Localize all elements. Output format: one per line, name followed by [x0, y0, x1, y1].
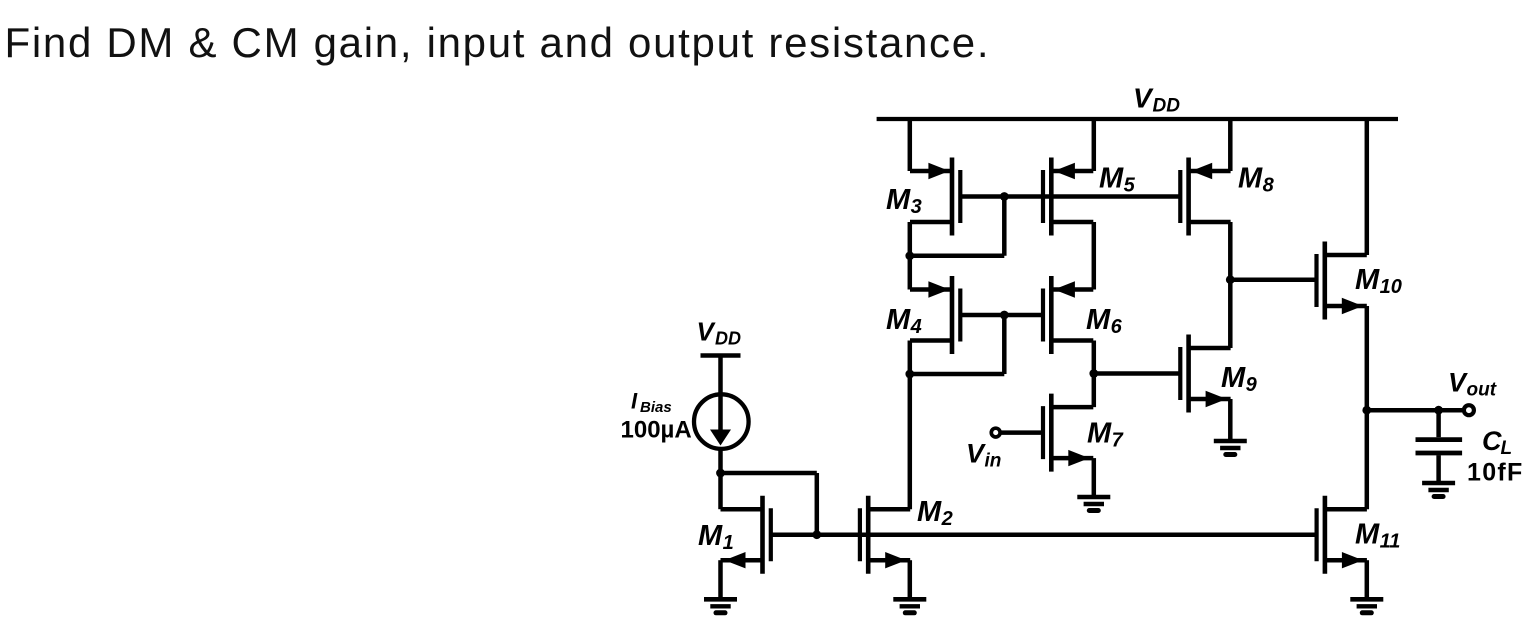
svg-text:Bias: Bias	[640, 399, 672, 416]
svg-text:Find DM & CM gain, input and o: Find DM & CM gain, input and output resi…	[5, 19, 991, 66]
label M6	[1086, 304, 1123, 338]
svg-text:5: 5	[1124, 175, 1136, 197]
svg-text:7: 7	[1112, 430, 1124, 452]
wire M4 drain node down to M2 drain	[908, 374, 913, 509]
label M8	[1238, 163, 1275, 197]
svg-text:4: 4	[910, 316, 922, 338]
wire M9 source to ground	[1228, 399, 1233, 441]
svg-text:6: 6	[1111, 316, 1123, 338]
svg-text:I: I	[631, 389, 638, 414]
transistor M9 (NMOS)	[1180, 335, 1230, 413]
ground (M1 source)	[704, 599, 737, 613]
wire gate line M1-M2-M11	[771, 532, 1317, 537]
svg-text:2: 2	[941, 508, 953, 530]
node M4 gate-drain junction	[1000, 311, 1009, 320]
label M10	[1355, 264, 1402, 298]
svg-text:L: L	[1501, 438, 1513, 459]
node M4 drain / M2 drain	[905, 370, 914, 379]
wire Vout node to M11 drain	[1365, 410, 1370, 509]
svg-text:10: 10	[1380, 276, 1402, 298]
svg-text:C: C	[1482, 426, 1502, 456]
wire M7 source to ground	[1092, 458, 1097, 497]
wire M3 drain node to M4 source	[908, 256, 913, 290]
label M5	[1099, 163, 1136, 197]
svg-text:3: 3	[911, 196, 922, 218]
label M11	[1355, 519, 1400, 553]
label M9	[1221, 362, 1258, 396]
transistor M8 (PMOS)	[1180, 158, 1230, 236]
wire gate line M3-M5-M8	[960, 194, 1180, 199]
svg-text:M: M	[886, 184, 911, 216]
ground (CL)	[1422, 483, 1455, 497]
wire VDD to M8 source	[1228, 119, 1233, 171]
svg-text:M: M	[698, 520, 723, 552]
wire bias node to M1 drain	[718, 473, 723, 509]
node M1 gate junction	[812, 530, 821, 539]
node M8/M9 drain to M10 gate	[1226, 275, 1235, 284]
wire VDD bar to current source	[718, 356, 723, 433]
svg-text:V: V	[966, 439, 986, 469]
wire Vout node to terminal	[1367, 408, 1462, 413]
wire bias node to gate line (diode connection)	[721, 471, 817, 476]
svg-text:DD: DD	[715, 329, 741, 349]
capacitor CL	[1416, 410, 1463, 483]
wire M11 source to ground	[1365, 560, 1370, 599]
svg-text:M: M	[1221, 362, 1246, 394]
transistor M4 (PMOS)	[910, 276, 960, 354]
label Vout	[1448, 368, 1497, 401]
wire M4 gate to drain loop	[1002, 315, 1007, 374]
svg-text:M: M	[1086, 304, 1111, 336]
svg-text:11: 11	[1380, 531, 1401, 553]
wire M10 source to Vout node	[1365, 306, 1370, 410]
svg-text:100µA: 100µA	[621, 417, 692, 444]
svg-text:M: M	[1087, 418, 1112, 450]
label VDD (bias)	[697, 317, 742, 349]
node M6/M7 drains to M9 gate	[1089, 369, 1098, 378]
wire node to M9 gate	[1094, 371, 1181, 376]
svg-text:M: M	[886, 304, 911, 336]
ground (M2 source)	[893, 599, 926, 613]
label Vin	[966, 439, 1001, 472]
transistor M10 (NMOS source follower)	[1317, 242, 1367, 320]
terminal Vout	[1464, 405, 1474, 415]
transistor M2 (NMOS)	[860, 496, 910, 574]
ground (M9 source)	[1214, 441, 1247, 455]
svg-text:V: V	[697, 317, 717, 347]
node CL tap	[1434, 406, 1443, 415]
svg-text:9: 9	[1246, 374, 1258, 396]
transistor M11 (NMOS)	[1317, 496, 1367, 574]
ground (M11 source)	[1350, 599, 1383, 613]
svg-text:8: 8	[1263, 175, 1275, 197]
terminal Vin	[991, 428, 1000, 437]
transistor M1 (NMOS)	[721, 496, 771, 574]
svg-text:M: M	[1355, 519, 1380, 551]
transistor M6 (PMOS)	[1043, 276, 1093, 354]
svg-text:1: 1	[723, 532, 734, 554]
label M1	[698, 520, 734, 554]
label M4	[886, 304, 922, 338]
svg-text:in: in	[985, 451, 1002, 472]
node bias	[716, 469, 725, 478]
wire VDD to M3 source	[908, 119, 913, 171]
node Vout	[1362, 406, 1371, 415]
label M2	[917, 496, 953, 530]
label M7	[1087, 418, 1124, 452]
svg-text:M: M	[1238, 163, 1263, 195]
VDD supply bar (bias)	[701, 353, 741, 357]
transistor M7 (NMOS)	[1043, 394, 1093, 472]
VDD rail	[877, 117, 1398, 121]
wire current source to bias node	[718, 449, 723, 473]
svg-text:V: V	[1448, 368, 1468, 398]
svg-text:10fF: 10fF	[1467, 459, 1524, 487]
wire Vin to M7 gate	[1002, 430, 1044, 435]
wire gate line M4-M6	[960, 313, 1043, 318]
wire node to M10 gate	[1230, 277, 1316, 282]
wire M8 drain to M9 drain	[1228, 222, 1233, 348]
label CL	[1482, 426, 1512, 459]
wire M1 source to ground	[718, 560, 723, 599]
svg-text:M: M	[917, 496, 942, 528]
wire M5 drain to M6 source	[1092, 222, 1097, 290]
wire M6 drain to M7 drain	[1092, 341, 1097, 408]
svg-text:DD: DD	[1153, 96, 1181, 117]
node M3 gate-drain junction	[1000, 192, 1009, 201]
svg-text:V: V	[1133, 83, 1154, 114]
wire VDD to M10 drain	[1365, 119, 1370, 255]
svg-text:M: M	[1099, 163, 1124, 195]
node M3 drain / M4 source	[905, 251, 914, 260]
transistor M3 (PMOS)	[910, 158, 960, 236]
svg-text:M: M	[1355, 264, 1380, 296]
wire M3 gate to drain loop	[1002, 197, 1007, 256]
wire VDD to M5 source	[1092, 119, 1097, 171]
wire M2 source to ground	[908, 560, 913, 599]
label VDD (rail)	[1133, 83, 1180, 117]
label I_Bias	[631, 389, 672, 417]
transistor M5 (PMOS)	[1043, 158, 1093, 236]
label M3	[886, 184, 922, 218]
ground (M7 source)	[1077, 497, 1110, 511]
current source I_Bias	[694, 394, 749, 449]
svg-text:out: out	[1467, 380, 1497, 401]
